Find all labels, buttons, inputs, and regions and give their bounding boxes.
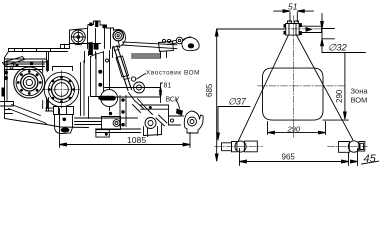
svg-text:ВСУ: ВСУ [166, 97, 180, 104]
svg-text:1085: 1085 [127, 135, 146, 145]
svg-text:290: 290 [287, 124, 301, 133]
svg-text:Зона: Зона [351, 87, 369, 96]
svg-text:ВОМ: ВОМ [351, 96, 368, 105]
svg-text:290: 290 [335, 89, 344, 103]
svg-text:81: 81 [164, 83, 172, 90]
svg-text:∅32: ∅32 [328, 43, 348, 54]
svg-text:685: 685 [205, 83, 214, 97]
svg-text:45: 45 [364, 153, 377, 165]
svg-text:Хвостовик ВОМ: Хвостовик ВОМ [146, 70, 200, 77]
svg-text:51: 51 [288, 2, 298, 12]
svg-text:965: 965 [282, 153, 296, 162]
svg-text:∅37: ∅37 [228, 97, 247, 107]
